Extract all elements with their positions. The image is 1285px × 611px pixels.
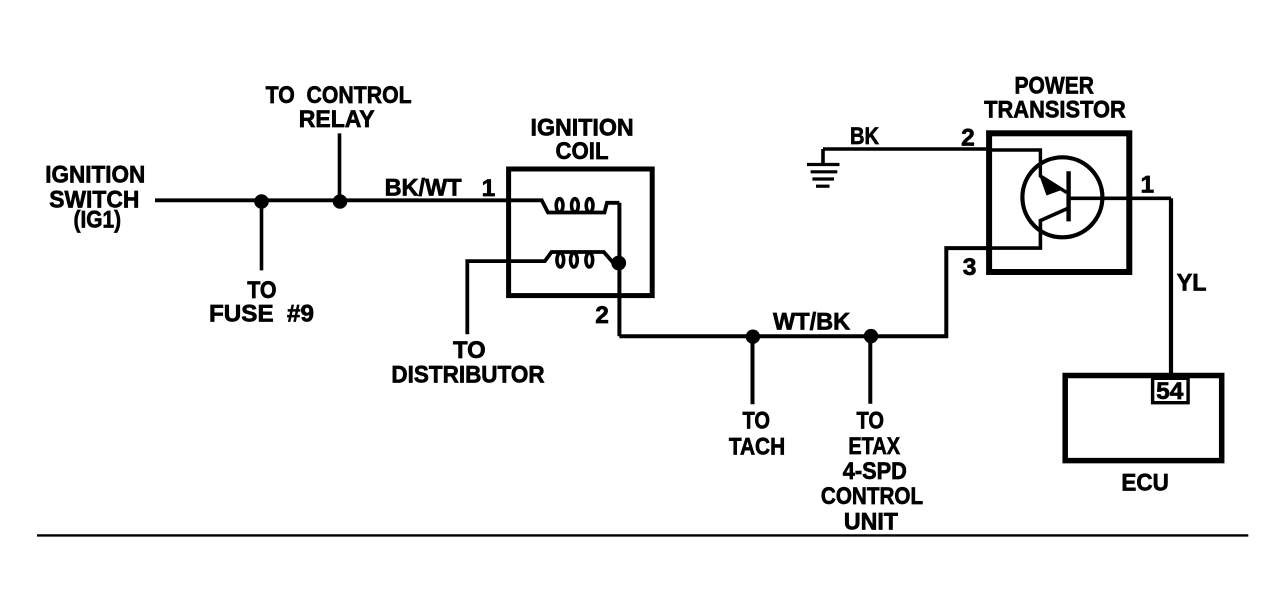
primary winding L1 of ignition coil [509,199,620,213]
svg-text:4-SPD: 4-SPD [843,458,907,485]
node TO FUSE #9 label [209,277,314,328]
svg-text:WT/BK: WT/BK [773,309,850,336]
svg-text:TO: TO [453,337,486,364]
svg-text:2: 2 [595,302,609,329]
wire to control relay [338,133,342,201]
svg-text:3: 3 [963,254,977,281]
junction dot at fuse branch [254,194,269,209]
svg-text:BK/WT: BK/WT [385,174,462,201]
svg-text:CONTROL: CONTROL [821,483,923,510]
transistor Q1 base lead to pin 1 [1069,197,1171,201]
transistor Q1 emitter arrow [1039,175,1062,196]
ECU box [1065,376,1222,461]
svg-text:UNIT: UNIT [844,508,898,535]
svg-text:TO: TO [743,408,771,435]
node TO DISTRIBUTOR label [391,337,544,389]
junction dot at control relay branch [333,194,348,209]
svg-text:POWER: POWER [1015,73,1095,100]
svg-text:YL: YL [1177,269,1207,296]
svg-text:IGNITION: IGNITION [45,161,145,188]
node TO CONTROL RELAY label [266,82,412,133]
wire to fuse #9 [260,202,264,271]
bottom rule [37,534,1248,536]
junction dot at ETAX branch [864,329,878,343]
secondary winding L2 of ignition coil [467,252,613,334]
wire from coil windings junction down to pin 2 [617,203,621,336]
transistor Q1 circle [1022,157,1102,237]
wire WT/BK from coil pin 2 to power transistor pin 3 [619,248,989,336]
svg-text:ETAX: ETAX [848,433,900,460]
ground symbol [807,149,840,186]
power transistor title [984,73,1126,124]
wire to tach [751,337,755,405]
svg-text:(IG1): (IG1) [74,207,122,234]
svg-text:DISTRIBUTOR: DISTRIBUTOR [391,362,544,389]
node TO ETAX 4-SPD CONTROL UNIT label [821,408,923,536]
wire YL from power transistor pin 1 to ECU pin 54 [1169,198,1173,378]
svg-text:BK: BK [850,123,879,150]
svg-text:TACH: TACH [729,434,785,461]
wire from ignition switch to ignition coil pin 1 [155,198,509,202]
junction dot at tach branch [746,330,760,344]
svg-text:54: 54 [1156,378,1184,405]
ignition coil title [531,114,634,165]
svg-text:2: 2 [961,125,975,152]
svg-text:1: 1 [1140,171,1154,198]
ignition coil box [509,169,653,296]
svg-text:TO: TO [856,408,884,435]
wire BK from ground to power transistor pin 2 [823,147,989,151]
ECU pin 54 box [1153,378,1189,402]
junction dot inside ignition coil [611,256,626,271]
transistor Q1 collector lead to pin 3 [989,208,1069,248]
node TO TACH label [729,408,785,461]
transistor Q1 base bar [1066,171,1070,221]
svg-text:TRANSISTOR: TRANSISTOR [984,97,1126,124]
transistor Q1 emitter lead from pin 2 [989,150,1067,193]
node IGNITION SWITCH (IG1) label [45,161,145,233]
power transistor box [989,133,1129,272]
wire to ETAX control unit [868,336,872,403]
svg-text:RELAY: RELAY [299,106,375,133]
svg-text:FUSE #9: FUSE #9 [209,301,314,328]
svg-text:ECU: ECU [1121,469,1168,496]
svg-text:1: 1 [482,175,496,202]
svg-text:COIL: COIL [556,138,609,165]
